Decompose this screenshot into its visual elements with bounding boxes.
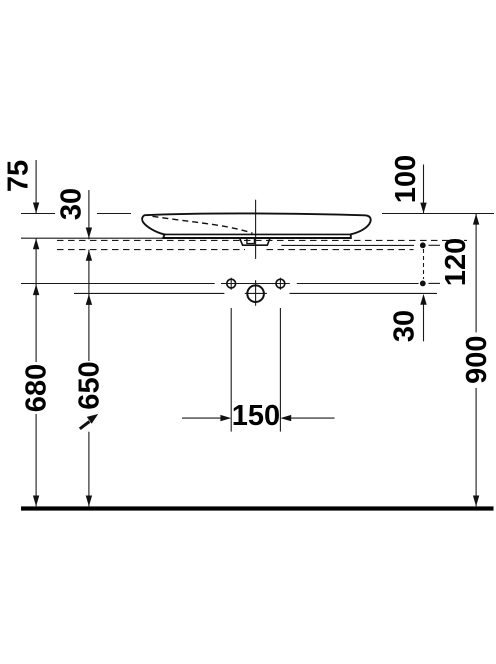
svg-text:650: 650: [74, 361, 106, 409]
svg-text:75: 75: [3, 160, 35, 192]
svg-text:680: 680: [21, 364, 53, 412]
svg-text:30: 30: [56, 188, 88, 220]
svg-text:150: 150: [232, 400, 280, 432]
svg-text:900: 900: [461, 336, 493, 384]
svg-text:100: 100: [390, 155, 422, 203]
svg-text:30: 30: [389, 310, 421, 342]
svg-text:120: 120: [440, 238, 472, 286]
